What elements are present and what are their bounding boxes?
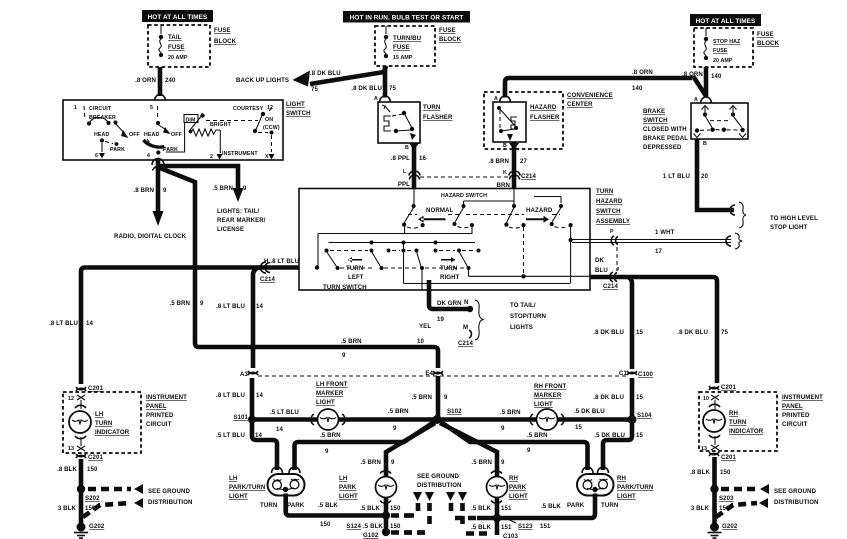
svg-text:9: 9 bbox=[527, 447, 531, 454]
see ground distribution label (middle) bbox=[417, 473, 462, 489]
svg-text:14: 14 bbox=[276, 426, 283, 433]
svg-text:COURTESY: COURTESY bbox=[233, 106, 264, 112]
turn switch contacts bbox=[325, 249, 481, 253]
splice S102 bbox=[433, 408, 463, 424]
svg-text:.8 DK BLU: .8 DK BLU bbox=[310, 70, 341, 77]
svg-text:15 AMP: 15 AMP bbox=[393, 55, 413, 61]
wire C1 to S104 bbox=[630, 378, 635, 419]
svg-text:DISTRIBUTION: DISTRIBUTION bbox=[148, 499, 193, 506]
connector C1 C100 bbox=[619, 370, 653, 378]
svg-text:S104: S104 bbox=[637, 412, 652, 419]
svg-text:HAZARD: HAZARD bbox=[596, 198, 623, 205]
svg-text:BLU: BLU bbox=[595, 267, 608, 274]
fuse TURN/BU labels bbox=[393, 35, 422, 61]
svg-text:151: 151 bbox=[540, 523, 551, 530]
connector at light switch terminal 5 bbox=[155, 95, 166, 102]
svg-text:C214: C214 bbox=[603, 283, 618, 290]
svg-text:20 AMP: 20 AMP bbox=[168, 55, 188, 61]
label .5 DK BLU 15 (below S104) bbox=[594, 432, 643, 439]
normal label with arrow bbox=[418, 207, 454, 223]
light switch label bbox=[286, 101, 311, 117]
svg-text:A3: A3 bbox=[240, 371, 249, 378]
svg-text:FLASHER: FLASHER bbox=[530, 114, 560, 121]
svg-text:.5 BRN: .5 BRN bbox=[527, 432, 548, 439]
svg-text:PARK/TURN: PARK/TURN bbox=[617, 484, 653, 491]
label .5 BRN 9 (vertical) bbox=[169, 300, 204, 307]
terminal A brake switch bbox=[694, 97, 712, 104]
bulkhead dashed line A3 to C1 bbox=[258, 375, 628, 377]
svg-text:E4: E4 bbox=[425, 370, 433, 377]
wire branch diagonal to park lamp feed bbox=[160, 168, 438, 368]
svg-text:10: 10 bbox=[703, 396, 709, 402]
arrow on wire at flasher output bbox=[409, 143, 419, 150]
svg-text:FUSE: FUSE bbox=[214, 27, 231, 34]
ground G202 (LH) bbox=[74, 523, 105, 539]
svg-text:.5 BLK: .5 BLK bbox=[360, 505, 380, 512]
RH turn indicator bulb bbox=[703, 404, 725, 437]
fuse TURN/BU element bbox=[384, 39, 386, 54]
svg-text:75: 75 bbox=[311, 86, 318, 93]
RH park light label bbox=[509, 475, 528, 500]
turn switch rail 2 bbox=[329, 241, 476, 245]
wire branch to tail lights bbox=[160, 166, 238, 189]
wire S101 to LH front marker to S102 bbox=[252, 417, 437, 422]
svg-text:HAZARD SWITCH: HAZARD SWITCH bbox=[441, 193, 487, 199]
svg-text:C100: C100 bbox=[638, 371, 653, 378]
svg-text:TURN: TURN bbox=[596, 188, 613, 195]
hazard switch wipers bbox=[402, 208, 573, 229]
svg-text:9: 9 bbox=[501, 425, 505, 432]
svg-text:.5 BLK: .5 BLK bbox=[471, 505, 491, 512]
svg-text:.8 BLK: .8 BLK bbox=[690, 469, 710, 476]
dashed ground drop 1 (to S124) bbox=[404, 503, 418, 516]
svg-text:INSTRUMENT: INSTRUMENT bbox=[222, 151, 258, 157]
wire LH park light to S124 bbox=[384, 497, 389, 530]
dashed link S124 to ground drop bbox=[391, 513, 415, 518]
wire brake switch to high level stop light bbox=[697, 139, 734, 210]
power label HOT AT ALL TIMES (right) bbox=[690, 14, 761, 26]
svg-text:HOT AT ALL TIMES: HOT AT ALL TIMES bbox=[148, 14, 208, 21]
instrument panel printed circuit label (right) bbox=[782, 394, 823, 428]
svg-text:CENTER: CENTER bbox=[567, 101, 593, 108]
svg-text:20: 20 bbox=[701, 173, 708, 180]
svg-text:14: 14 bbox=[256, 303, 263, 310]
label .5 BRN 9 (E4 to S102) bbox=[411, 394, 448, 401]
svg-text:.8 ORN: .8 ORN bbox=[632, 69, 653, 76]
svg-text:CIRCUIT: CIRCUIT bbox=[782, 421, 808, 428]
wire S102 to LH park light bbox=[386, 423, 435, 476]
wire RH indicator to ground bbox=[712, 457, 717, 524]
power label HOT AT ALL TIMES (left) bbox=[142, 10, 213, 22]
svg-text:CIRCUIT: CIRCUIT bbox=[89, 106, 112, 112]
svg-text:P: P bbox=[610, 229, 614, 235]
svg-text:PPL: PPL bbox=[398, 181, 410, 188]
label .8 BRN 27 bbox=[488, 158, 527, 165]
hazard label with arrow bbox=[526, 207, 553, 223]
label .8 PPL 16 bbox=[391, 155, 427, 162]
svg-text:10: 10 bbox=[417, 338, 424, 345]
svg-text:.5 BLK: .5 BLK bbox=[363, 523, 383, 530]
svg-text:B: B bbox=[703, 141, 707, 147]
svg-text:C201: C201 bbox=[88, 385, 103, 392]
svg-text:LEFT: LEFT bbox=[348, 274, 364, 281]
svg-text:9: 9 bbox=[342, 352, 346, 359]
arrow back up lights bbox=[293, 71, 311, 87]
svg-text:BACK UP LIGHTS: BACK UP LIGHTS bbox=[236, 77, 289, 84]
label .8 LT BLU 14 (left vertical) bbox=[49, 320, 93, 327]
labels .5 BRN 10 9 on horizontal run bbox=[341, 338, 424, 359]
RH turn indicator label bbox=[729, 410, 764, 435]
instrument panel printed circuit label (left) bbox=[146, 394, 187, 428]
svg-text:TO TAIL/: TO TAIL/ bbox=[510, 302, 536, 309]
svg-text:YEL: YEL bbox=[419, 323, 431, 330]
svg-text:.8 DK BLU: .8 DK BLU bbox=[593, 329, 624, 336]
RH front marker light label bbox=[534, 383, 566, 408]
wire RH park light to S123 bbox=[495, 497, 500, 535]
wire S104 down to RH park/turn TURN bbox=[603, 420, 632, 471]
svg-text:LH: LH bbox=[229, 475, 237, 482]
svg-text:B: B bbox=[405, 145, 409, 151]
wire diagonal merge bbox=[693, 76, 706, 96]
svg-text:19: 19 bbox=[437, 316, 444, 323]
svg-text:PANEL: PANEL bbox=[146, 403, 167, 410]
svg-text:.8 DK BLU: .8 DK BLU bbox=[351, 85, 382, 92]
branch down to C1 bbox=[628, 277, 632, 369]
svg-text:.5 BRN: .5 BRN bbox=[388, 408, 409, 415]
wire from terminal 4 down (radio feed) bbox=[156, 160, 161, 212]
svg-text:C201: C201 bbox=[721, 454, 736, 461]
fuse TAIL element bbox=[159, 39, 161, 53]
wire fuse to turn flasher bbox=[383, 66, 388, 98]
LH park/turn light housing bbox=[268, 467, 305, 496]
label .8 ORN 140 (right pair) bbox=[682, 71, 722, 80]
wire DK GRN output from turn switch bbox=[429, 280, 469, 309]
svg-text:TURN: TURN bbox=[260, 502, 277, 509]
ground G102 bbox=[363, 528, 390, 539]
svg-text:.5 BRN: .5 BRN bbox=[320, 432, 341, 439]
svg-text:14: 14 bbox=[255, 432, 262, 439]
fuse STOP HAZ element bbox=[704, 41, 706, 56]
fuse block label (left) bbox=[214, 27, 237, 45]
label .5 BRN 9 (LH park/turn feed) bbox=[320, 432, 341, 455]
svg-text:G102: G102 bbox=[363, 532, 379, 539]
label .8 LT BLU 14 (A3 wire upper) bbox=[216, 303, 263, 310]
svg-text:.8 PPL: .8 PPL bbox=[391, 155, 410, 162]
label .5 BRN 9 (tail) bbox=[212, 185, 247, 192]
svg-text:PRINTED: PRINTED bbox=[146, 412, 174, 419]
svg-text:BLOCK: BLOCK bbox=[214, 38, 237, 45]
RH park/turn light housing bbox=[577, 467, 614, 496]
terminal 1 bbox=[74, 105, 85, 120]
turn left label with arrow bbox=[346, 257, 364, 281]
head/off/park switch (middle) bbox=[144, 125, 183, 160]
svg-text:140: 140 bbox=[711, 73, 722, 80]
fuse STOP HAZ labels bbox=[713, 39, 741, 64]
splice S123 bbox=[493, 514, 551, 530]
svg-text:150: 150 bbox=[390, 505, 401, 512]
turn switch lower link line bbox=[404, 243, 571, 284]
RH park/turn light label bbox=[617, 475, 653, 500]
fuse block box (TURN/BU FUSE) bbox=[375, 26, 435, 66]
svg-text:HOT AT ALL TIMES: HOT AT ALL TIMES bbox=[696, 18, 756, 25]
svg-text:.8 DK BLU: .8 DK BLU bbox=[677, 329, 708, 336]
svg-text:.5 LT BLU: .5 LT BLU bbox=[270, 409, 299, 416]
svg-text:BRIGHT: BRIGHT bbox=[210, 122, 232, 128]
turn switch output line to J bbox=[469, 227, 591, 278]
terminal K and C214 connector bbox=[503, 170, 536, 180]
courtesy switch bbox=[233, 105, 280, 160]
turn flasher internal symbol bbox=[382, 105, 416, 140]
LH front marker light label bbox=[316, 381, 348, 406]
svg-text:HOT IN RUN, BULB TEST OR STAR: HOT IN RUN, BULB TEST OR START bbox=[350, 15, 464, 22]
circuit breaker bbox=[87, 106, 118, 126]
svg-text:TURN: TURN bbox=[95, 420, 112, 427]
splice S202 junction bbox=[77, 485, 85, 493]
svg-text:SEE GROUND: SEE GROUND bbox=[417, 473, 459, 480]
svg-text:SWITCH: SWITCH bbox=[286, 110, 311, 117]
svg-text:5: 5 bbox=[150, 105, 153, 111]
svg-text:INSTRUMENT: INSTRUMENT bbox=[782, 394, 823, 401]
connector C214 on H wire bbox=[260, 262, 275, 283]
svg-text:LIGHTS: TAIL/: LIGHTS: TAIL/ bbox=[217, 208, 259, 215]
svg-text:150: 150 bbox=[720, 469, 731, 476]
arrow ground 2 (RH) bbox=[759, 498, 768, 508]
svg-text:OFF: OFF bbox=[129, 132, 141, 138]
svg-text:BRAKE PEDAL: BRAKE PEDAL bbox=[643, 135, 688, 142]
fuse block box (TAIL FUSE) bbox=[148, 25, 210, 67]
svg-text:SWITCH: SWITCH bbox=[596, 208, 621, 215]
svg-text:TURN SWITCH: TURN SWITCH bbox=[323, 284, 367, 291]
branch down at C214 area bbox=[253, 268, 260, 369]
park turn labels (RH) bbox=[567, 502, 618, 509]
svg-text:RH: RH bbox=[729, 410, 738, 417]
lights tail rear marker license label bbox=[217, 208, 266, 233]
LH turn indicator label bbox=[95, 411, 130, 436]
brake switch label bbox=[643, 108, 688, 151]
svg-text:B: B bbox=[503, 143, 507, 149]
svg-text:9: 9 bbox=[243, 185, 247, 192]
svg-text:15: 15 bbox=[636, 432, 643, 439]
svg-text:150: 150 bbox=[390, 523, 401, 530]
label .5 BRN 9 (LH park light) bbox=[360, 459, 395, 466]
svg-text:FUSE: FUSE bbox=[439, 27, 456, 34]
label S203 150 3 BLK (RH) bbox=[691, 495, 734, 512]
terminal 10 bbox=[703, 395, 719, 409]
label .8 DK BLU 15 (below C1) bbox=[593, 394, 643, 401]
svg-text:ASSEMBLY: ASSEMBLY bbox=[596, 218, 630, 225]
svg-text:9: 9 bbox=[501, 459, 505, 466]
svg-text:K: K bbox=[503, 170, 507, 176]
svg-text:TURN: TURN bbox=[601, 502, 618, 509]
svg-text:RH: RH bbox=[509, 475, 518, 482]
svg-text:LICENSE: LICENSE bbox=[217, 226, 244, 233]
turn switch wipers bbox=[327, 252, 471, 291]
brace 1 WHT end bbox=[735, 233, 742, 249]
label .5 DK BLU 15 (marker right) bbox=[574, 408, 605, 431]
turn hazard switch assembly label bbox=[596, 188, 630, 225]
wire .8 ORN 240 fuse to light switch bbox=[158, 67, 163, 96]
svg-text:S102: S102 bbox=[447, 408, 462, 415]
svg-text:DISTRIBUTION: DISTRIBUTION bbox=[774, 499, 819, 506]
svg-text:1: 1 bbox=[74, 105, 77, 111]
svg-text:LIGHT: LIGHT bbox=[316, 399, 335, 406]
RH instrument panel dashed box bbox=[699, 392, 777, 451]
fuse TAIL labels bbox=[168, 34, 188, 61]
svg-text:15: 15 bbox=[636, 329, 643, 336]
LH turn indicator bulb bbox=[69, 405, 91, 438]
to tail stop turn lights label bbox=[510, 302, 546, 331]
label 1 WHT 17 bbox=[655, 229, 675, 255]
svg-text:3 BLK: 3 BLK bbox=[691, 505, 710, 512]
svg-text:C201: C201 bbox=[721, 384, 736, 391]
connector C201 (LH top) bbox=[76, 385, 103, 392]
svg-text:MARKER: MARKER bbox=[534, 392, 562, 399]
label .8 DK BLU 75 (x717) bbox=[677, 329, 728, 336]
dashed ground lead 2 (LH diagonal) bbox=[83, 503, 131, 517]
svg-text:151: 151 bbox=[501, 524, 512, 531]
svg-text:FUSE: FUSE bbox=[393, 44, 410, 51]
terminal 5 bbox=[150, 105, 160, 125]
splice S203 junction bbox=[710, 485, 718, 493]
terminal 13 (RH bottom) bbox=[701, 436, 719, 452]
svg-text:LH FRONT: LH FRONT bbox=[316, 381, 348, 388]
terminal A hazard flasher bbox=[494, 96, 511, 103]
svg-text:6: 6 bbox=[95, 153, 98, 159]
terminal J connector C214 bbox=[595, 257, 619, 290]
svg-text:INDICATOR: INDICATOR bbox=[729, 428, 764, 435]
svg-text:REAR MARKER/: REAR MARKER/ bbox=[217, 217, 266, 224]
LH park light bulb bbox=[376, 471, 397, 503]
svg-text:NORMAL: NORMAL bbox=[426, 207, 454, 214]
svg-text:16: 16 bbox=[419, 155, 426, 162]
svg-text:OFF: OFF bbox=[171, 132, 183, 138]
LH park/turn light label bbox=[229, 475, 265, 500]
svg-text:151: 151 bbox=[501, 505, 512, 512]
label .5 BRN 9 (RH park/turn feed) bbox=[527, 432, 548, 454]
svg-text:.8 LT BLU: .8 LT BLU bbox=[49, 320, 78, 327]
svg-text:PARK/TURN: PARK/TURN bbox=[229, 484, 265, 491]
svg-text:LH: LH bbox=[95, 411, 103, 418]
ground distribution arrows (middle) bbox=[413, 492, 467, 501]
junction at left edge entry bbox=[315, 265, 319, 269]
svg-text:FUSE: FUSE bbox=[713, 48, 728, 54]
svg-text:C1: C1 bbox=[619, 370, 628, 377]
svg-text:.5 BRN: .5 BRN bbox=[212, 185, 233, 192]
svg-text:INSTRUMENT: INSTRUMENT bbox=[146, 394, 187, 401]
brace to high level stop light bbox=[739, 202, 746, 228]
svg-text:4: 4 bbox=[147, 153, 150, 159]
wire RH park/turn ground to S123 bbox=[477, 494, 595, 519]
svg-text:9: 9 bbox=[393, 425, 397, 432]
svg-text:CLOSED WITH: CLOSED WITH bbox=[643, 126, 687, 133]
label .8 BLK 150 bbox=[57, 466, 98, 473]
svg-text:ON: ON bbox=[265, 117, 273, 123]
arrow ground 1 (LH) bbox=[134, 484, 143, 494]
svg-text:M: M bbox=[463, 324, 468, 331]
fuse block box (STOP HAZ FUSE) bbox=[694, 28, 753, 67]
svg-text:TO HIGH LEVEL: TO HIGH LEVEL bbox=[770, 215, 818, 222]
power label HOT IN RUN BULB TEST OR START bbox=[343, 11, 470, 23]
dashed link G102 to ground drop bbox=[391, 530, 427, 535]
svg-text:75: 75 bbox=[389, 85, 396, 92]
svg-text:.8 ORN: .8 ORN bbox=[135, 77, 156, 84]
svg-text:C201: C201 bbox=[88, 454, 103, 461]
svg-text:.5 BRN: .5 BRN bbox=[411, 394, 432, 401]
svg-text:15: 15 bbox=[636, 394, 643, 401]
svg-text:75: 75 bbox=[721, 329, 728, 336]
wire LH park/turn ground to S124 bbox=[286, 494, 386, 516]
svg-text:FUSE: FUSE bbox=[757, 31, 774, 38]
svg-text:S101: S101 bbox=[233, 414, 248, 421]
label .8 DK BLU 75 (vertical) bbox=[351, 85, 396, 92]
wire A3 to S101 bbox=[250, 378, 255, 419]
svg-text:FLASHER: FLASHER bbox=[423, 114, 453, 121]
svg-text:C214: C214 bbox=[458, 340, 473, 347]
svg-text:INDICATOR: INDICATOR bbox=[95, 429, 130, 436]
svg-text:A: A bbox=[374, 96, 378, 102]
wire fuse down and merge to brake switch bbox=[704, 67, 709, 98]
svg-text:BRAKE: BRAKE bbox=[643, 108, 665, 115]
label S202 150 3 BLK bbox=[58, 495, 100, 512]
LH instrument panel dashed box bbox=[63, 392, 141, 453]
svg-text:.8 BLK: .8 BLK bbox=[57, 466, 77, 473]
label .5 BLK 151 (below S123) bbox=[471, 524, 512, 531]
label .8 ORN 140 (left pair) bbox=[632, 69, 653, 92]
wire 1 WHT (thin double line) bbox=[572, 236, 731, 246]
svg-text:150: 150 bbox=[87, 466, 98, 473]
svg-text:.8 BRN: .8 BRN bbox=[488, 158, 509, 165]
wire S101 down to LH park/turn bbox=[252, 420, 277, 471]
svg-text:.5 DK BLU: .5 DK BLU bbox=[594, 432, 625, 439]
connector at stop light wire end bbox=[730, 205, 735, 215]
see ground distribution label (RH) bbox=[774, 488, 819, 506]
see ground distribution label (LH) bbox=[148, 488, 193, 506]
svg-text:PARK: PARK bbox=[339, 484, 357, 491]
terminal 13 bbox=[68, 437, 85, 452]
label .8 LT BLU 14 (below A3) bbox=[216, 392, 263, 399]
ground G202 (RH) bbox=[708, 523, 738, 539]
label .8 ORN 240 bbox=[135, 77, 176, 84]
svg-text:.8 LT BLU: .8 LT BLU bbox=[216, 303, 245, 310]
dashed ground lead 1 (RH) bbox=[721, 487, 757, 492]
svg-text:HAZARD: HAZARD bbox=[530, 104, 557, 111]
svg-text:LIGHT: LIGHT bbox=[617, 493, 636, 500]
svg-text:9: 9 bbox=[391, 459, 395, 466]
svg-text:.5 BRN: .5 BRN bbox=[471, 459, 492, 466]
terminal L and C214 connector bbox=[403, 169, 420, 180]
wire .8 ORN horizontal (hazard feed) bbox=[505, 78, 692, 98]
svg-text:FUSE: FUSE bbox=[168, 44, 185, 51]
splice S124 bbox=[346, 511, 390, 530]
svg-text:12: 12 bbox=[68, 396, 74, 402]
svg-text:LIGHT: LIGHT bbox=[534, 401, 553, 408]
svg-text:PRINTED: PRINTED bbox=[782, 412, 810, 419]
wire terminal H to left (LT BLU) bbox=[81, 268, 299, 385]
hazard switch poles bbox=[412, 188, 564, 208]
svg-text:17: 17 bbox=[655, 248, 662, 255]
arrow ground 2 (LH) bbox=[134, 498, 143, 508]
wire diagonal to back up lights bbox=[310, 66, 386, 84]
connector C201 (RH bottom) bbox=[709, 452, 736, 461]
svg-text:DEPRESSED: DEPRESSED bbox=[643, 144, 682, 151]
svg-text:PARK: PARK bbox=[509, 484, 527, 491]
dashed connector line L to K bbox=[420, 176, 508, 178]
svg-text:.5 BRN: .5 BRN bbox=[360, 459, 381, 466]
svg-text:N: N bbox=[464, 299, 469, 306]
light switch box bbox=[63, 100, 283, 160]
LH park light label bbox=[339, 475, 358, 500]
label .8 DK BLU 15 (x632 upper) bbox=[593, 329, 643, 336]
